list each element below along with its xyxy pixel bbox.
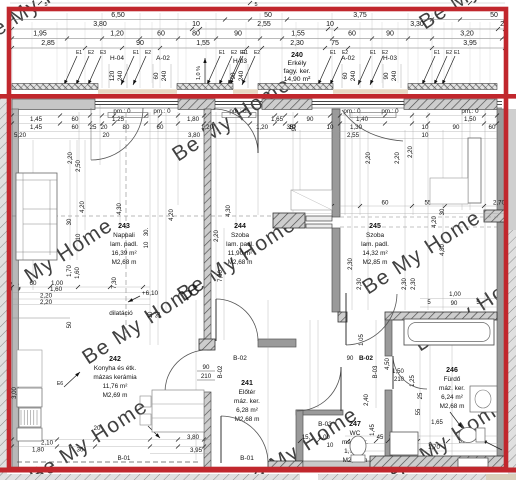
svg-text:pm.: 0: pm.: 0 — [461, 108, 479, 115]
svg-text:lam. padl.: lam. padl. — [361, 241, 389, 248]
svg-text:E1: E1 — [76, 50, 82, 56]
svg-text:1,0 %: 1,0 % — [196, 66, 202, 80]
svg-text:E3: E3 — [100, 50, 106, 56]
svg-text:2,20: 2,20 — [214, 230, 220, 242]
svg-text:90: 90 — [383, 72, 390, 79]
svg-text:30.: 30. — [144, 227, 150, 236]
svg-text:B-01: B-01 — [240, 455, 254, 462]
svg-text:14,32 m²: 14,32 m² — [362, 250, 387, 257]
svg-text:60: 60 — [157, 31, 165, 38]
svg-text:lam. padl.: lam. padl. — [226, 241, 254, 248]
svg-text:3,30: 3,30 — [410, 21, 424, 28]
svg-text:pm.: 0: pm.: 0 — [153, 108, 171, 115]
svg-text:90: 90 — [203, 364, 210, 371]
svg-text:B-03: B-03 — [318, 421, 332, 428]
svg-text:1,40: 1,40 — [356, 116, 369, 123]
svg-text:Szoba: Szoba — [366, 232, 385, 239]
svg-text:240: 240 — [391, 70, 398, 81]
svg-text:2,30: 2,30 — [402, 278, 408, 290]
svg-text:242: 242 — [109, 356, 121, 363]
svg-text:4,30: 4,30 — [117, 203, 123, 215]
svg-text:240: 240 — [117, 70, 124, 81]
svg-text:1,00: 1,00 — [318, 435, 330, 441]
svg-text:55: 55 — [416, 408, 422, 415]
svg-text:E2: E2 — [231, 50, 237, 56]
svg-text:2,20: 2,20 — [408, 146, 414, 158]
svg-text:E1: E1 — [330, 50, 336, 56]
svg-text:2,20: 2,20 — [40, 299, 53, 306]
svg-text:4,80: 4,80 — [440, 244, 446, 256]
svg-text:20: 20 — [156, 311, 162, 318]
svg-text:M2,68 m: M2,68 m — [112, 259, 137, 266]
svg-text:1,45: 1,45 — [30, 116, 43, 123]
svg-text:10: 10 — [422, 124, 429, 131]
svg-text:4,20: 4,20 — [432, 216, 438, 228]
svg-text:B-03: B-03 — [373, 365, 379, 378]
svg-text:10: 10 — [327, 124, 334, 131]
svg-text:10: 10 — [144, 241, 150, 248]
svg-text:244: 244 — [234, 223, 246, 230]
svg-text:E6: E6 — [57, 381, 63, 387]
svg-text:B-02: B-02 — [233, 355, 247, 362]
svg-text:50: 50 — [264, 12, 272, 19]
svg-text:M2,68 m: M2,68 m — [228, 259, 253, 266]
svg-text:75: 75 — [331, 40, 339, 47]
svg-text:11,90 m²: 11,90 m² — [228, 250, 253, 257]
svg-text:3,80: 3,80 — [188, 132, 201, 139]
svg-text:2,30: 2,30 — [357, 278, 363, 290]
svg-text:E2: E2 — [254, 50, 260, 56]
svg-text:1,70: 1,70 — [428, 445, 440, 451]
svg-text:50: 50 — [490, 12, 498, 19]
svg-text:+6,10: +6,10 — [142, 290, 159, 297]
svg-text:20: 20 — [94, 425, 101, 432]
svg-text:E2: E2 — [88, 50, 94, 56]
svg-text:1,00: 1,00 — [449, 292, 461, 298]
svg-text:Nappali: Nappali — [113, 232, 135, 239]
svg-text:2,20: 2,20 — [366, 152, 372, 164]
svg-text:245: 245 — [369, 223, 381, 230]
svg-text:25: 25 — [90, 124, 97, 131]
svg-text:M2,69 m: M2,69 m — [103, 392, 128, 399]
svg-text:210: 210 — [394, 377, 405, 383]
svg-text:B-02: B-02 — [218, 365, 224, 378]
svg-text:1,80: 1,80 — [32, 447, 45, 454]
svg-text:1,95: 1,95 — [33, 31, 47, 38]
svg-text:1,80: 1,80 — [187, 116, 200, 123]
svg-text:lam. padl.: lam. padl. — [110, 241, 138, 248]
svg-text:20: 20 — [101, 124, 108, 131]
svg-text:máz. ker.: máz. ker. — [234, 398, 260, 405]
svg-text:3,80: 3,80 — [93, 21, 107, 28]
svg-text:Szoba: Szoba — [231, 232, 250, 239]
svg-text:240: 240 — [161, 70, 168, 81]
svg-text:30: 30 — [440, 208, 446, 215]
svg-text:10: 10 — [422, 132, 429, 139]
svg-text:1,05: 1,05 — [359, 334, 365, 346]
svg-text:60: 60 — [30, 280, 37, 287]
svg-text:2,20: 2,20 — [395, 152, 401, 164]
svg-text:1,45: 1,45 — [370, 424, 376, 436]
svg-text:E2: E2 — [446, 50, 452, 56]
svg-text:E1: E1 — [454, 50, 460, 56]
svg-text:10: 10 — [327, 443, 334, 449]
svg-text:pm.: 0: pm.: 0 — [229, 108, 247, 115]
svg-text:H-03: H-03 — [383, 55, 397, 62]
svg-text:A-02: A-02 — [156, 55, 170, 62]
svg-text:7,30: 7,30 — [218, 270, 224, 282]
svg-text:3,80: 3,80 — [187, 434, 200, 441]
svg-text:30: 30 — [67, 218, 73, 225]
svg-text:H-03: H-03 — [233, 58, 247, 65]
svg-text:Előtér: Előtér — [239, 389, 257, 396]
svg-text:60: 60 — [342, 72, 349, 79]
svg-text:3,95: 3,95 — [190, 447, 203, 454]
svg-text:E1: E1 — [434, 50, 440, 56]
svg-text:6,28 m²: 6,28 m² — [236, 407, 258, 414]
svg-text:30: 30 — [77, 447, 84, 454]
svg-text:2,55: 2,55 — [347, 132, 360, 139]
svg-text:1,60: 1,60 — [75, 267, 81, 279]
svg-text:1,45: 1,45 — [30, 124, 43, 131]
svg-text:mázas kerámia: mázas kerámia — [93, 374, 137, 381]
svg-text:11,76 m²: 11,76 m² — [103, 383, 128, 390]
svg-text:E1: E1 — [133, 50, 139, 56]
svg-text:máz. ker.: máz. ker. — [439, 385, 465, 392]
svg-text:25: 25 — [418, 392, 424, 399]
svg-text:M2,85 m: M2,85 m — [363, 259, 388, 266]
svg-text:60: 60 — [489, 124, 496, 131]
svg-text:6,24 m²: 6,24 m² — [441, 394, 463, 401]
svg-text:2,55: 2,55 — [257, 21, 271, 28]
svg-text:60: 60 — [382, 200, 389, 207]
svg-text:241: 241 — [241, 380, 253, 387]
svg-text:2,30: 2,30 — [290, 40, 304, 47]
svg-text:1,55: 1,55 — [291, 31, 305, 38]
svg-text:60: 60 — [72, 116, 79, 123]
svg-text:1,65: 1,65 — [271, 116, 284, 123]
svg-text:A-02: A-02 — [341, 55, 355, 62]
svg-text:2,70: 2,70 — [493, 200, 506, 207]
svg-text:90: 90 — [386, 31, 394, 38]
svg-text:E1: E1 — [370, 50, 376, 56]
svg-text:50: 50 — [67, 321, 73, 328]
svg-text:6,50: 6,50 — [111, 12, 125, 19]
svg-text:90: 90 — [451, 301, 458, 307]
svg-text:E1: E1 — [219, 50, 225, 56]
svg-text:90: 90 — [292, 124, 298, 131]
svg-text:3,20: 3,20 — [460, 31, 474, 38]
svg-text:210: 210 — [201, 373, 212, 380]
svg-text:90: 90 — [453, 124, 460, 131]
svg-text:1,70: 1,70 — [67, 265, 73, 277]
svg-text:2,20: 2,20 — [68, 152, 74, 164]
svg-text:240: 240 — [350, 70, 357, 81]
svg-text:16,39 m²: 16,39 m² — [111, 250, 136, 257]
svg-text:60: 60 — [72, 124, 79, 131]
svg-text:4,50: 4,50 — [385, 358, 391, 370]
svg-text:246: 246 — [446, 367, 458, 374]
svg-text:15,: 15, — [302, 435, 311, 441]
svg-text:2,85: 2,85 — [41, 40, 55, 47]
svg-text:243: 243 — [118, 223, 130, 230]
svg-text:80: 80 — [192, 31, 200, 38]
svg-text:2,50: 2,50 — [76, 160, 82, 172]
svg-text:14,90 m²: 14,90 m² — [284, 76, 312, 83]
svg-text:Konyha és étk.: Konyha és étk. — [94, 365, 137, 372]
svg-text:240: 240 — [238, 70, 245, 81]
svg-text:2,10: 2,10 — [41, 440, 54, 447]
svg-text:240: 240 — [291, 52, 303, 59]
svg-text:1,50: 1,50 — [464, 116, 477, 123]
svg-text:4,30: 4,30 — [226, 205, 232, 217]
svg-text:7,30: 7,30 — [112, 277, 118, 289]
svg-text:10: 10 — [148, 311, 154, 318]
svg-text:247: 247 — [349, 421, 361, 428]
svg-text:E1: E1 — [242, 50, 248, 56]
svg-text:20: 20 — [103, 132, 110, 139]
svg-text:3,75: 3,75 — [353, 12, 367, 19]
svg-text:2,30: 2,30 — [348, 258, 354, 270]
svg-text:B-01: B-01 — [118, 456, 131, 462]
svg-text:2,40: 2,40 — [364, 394, 370, 406]
svg-text:pm.: 0: pm.: 0 — [343, 108, 361, 115]
svg-text:90: 90 — [234, 31, 242, 38]
svg-text:2,30: 2,30 — [411, 278, 417, 290]
svg-text:Fürdő: Fürdő — [444, 376, 461, 383]
svg-text:10: 10 — [326, 21, 334, 28]
svg-text:5,20: 5,20 — [14, 132, 27, 139]
svg-text:Erkély: Erkély — [288, 60, 307, 67]
svg-text:4,20: 4,20 — [80, 201, 86, 213]
svg-text:60: 60 — [153, 72, 160, 79]
svg-text:M2,68 m: M2,68 m — [440, 403, 465, 410]
svg-text:90: 90 — [230, 72, 237, 79]
svg-text:10: 10 — [76, 233, 82, 240]
svg-text:80: 80 — [123, 124, 130, 131]
svg-text:120: 120 — [109, 70, 116, 81]
svg-text:10: 10 — [192, 21, 200, 28]
svg-text:H-04: H-04 — [110, 55, 124, 62]
svg-text:4,20: 4,20 — [169, 209, 175, 221]
svg-text:dilatáció: dilatáció — [109, 310, 133, 317]
svg-text:B-02: B-02 — [359, 355, 373, 362]
svg-text:1,55: 1,55 — [196, 40, 210, 47]
svg-text:fagy. ker.: fagy. ker. — [283, 68, 310, 75]
svg-text:1,20: 1,20 — [110, 31, 124, 38]
svg-text:pm.: 0: pm.: 0 — [381, 108, 399, 115]
svg-text:45: 45 — [377, 435, 384, 441]
svg-text:E2: E2 — [145, 50, 151, 56]
svg-text:60: 60 — [157, 124, 164, 131]
svg-text:1,25: 1,25 — [112, 116, 125, 123]
svg-text:1,65: 1,65 — [431, 420, 443, 426]
svg-text:60: 60 — [348, 31, 356, 38]
svg-text:90: 90 — [347, 356, 354, 362]
svg-text:90: 90 — [307, 116, 314, 123]
